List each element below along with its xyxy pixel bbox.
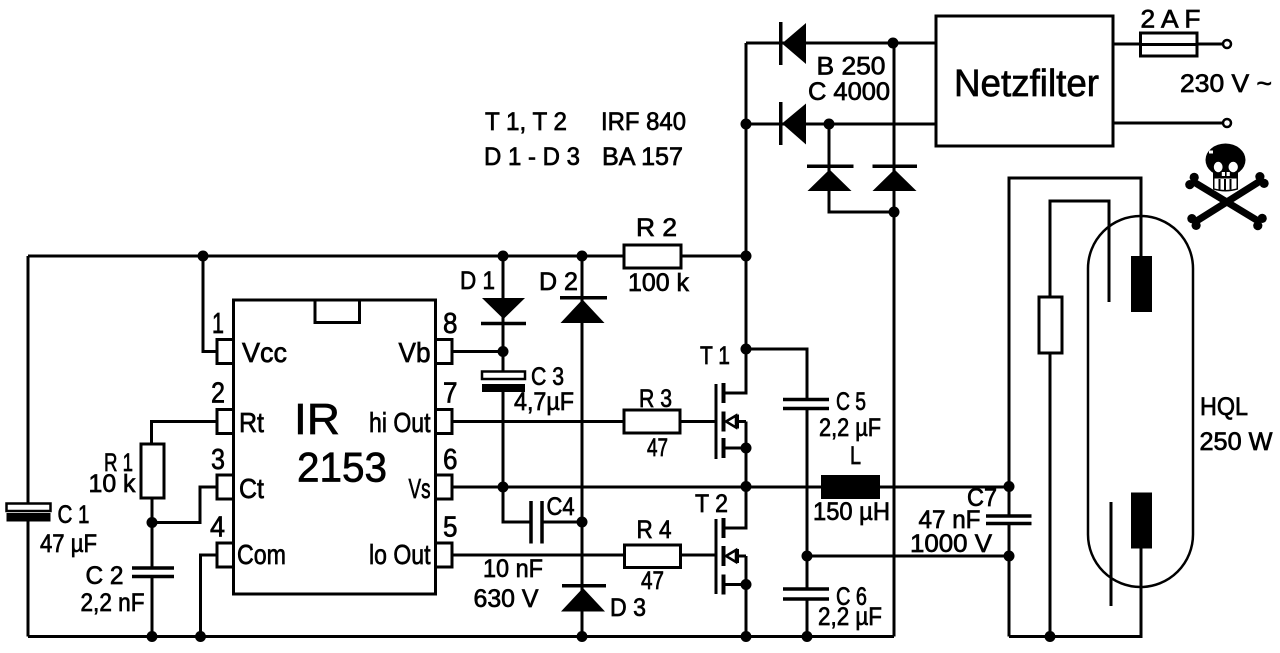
svg-text:2,2 nF: 2,2 nF — [81, 589, 145, 617]
svg-text:Vs: Vs — [409, 473, 431, 504]
svg-text:4,7µF: 4,7µF — [514, 388, 574, 416]
svg-text:IR: IR — [294, 395, 340, 444]
svg-text:2 A F: 2 A F — [1141, 6, 1201, 34]
svg-text:10 nF: 10 nF — [483, 555, 543, 583]
svg-text:C 5: C 5 — [836, 388, 866, 416]
svg-text:C 2: C 2 — [86, 562, 124, 590]
svg-text:Vb: Vb — [399, 337, 431, 368]
svg-text:L: L — [850, 442, 861, 470]
svg-text:Netzfilter: Netzfilter — [954, 63, 1099, 105]
svg-text:2,2 µF: 2,2 µF — [818, 603, 882, 631]
svg-text:1: 1 — [212, 308, 224, 340]
svg-text:T 1, T 2: T 1, T 2 — [485, 108, 567, 136]
svg-text:B 250: B 250 — [817, 53, 886, 81]
svg-text:Com: Com — [237, 539, 286, 570]
svg-text:C 3: C 3 — [531, 363, 564, 391]
svg-text:230 V ~: 230 V ~ — [1180, 70, 1272, 98]
svg-text:100 k: 100 k — [628, 269, 689, 297]
svg-text:Vcc: Vcc — [242, 337, 287, 368]
svg-text:150 µH: 150 µH — [813, 498, 890, 526]
svg-text:D 2: D 2 — [539, 268, 578, 296]
svg-text:47 µF: 47 µF — [40, 530, 97, 558]
svg-text:C 1: C 1 — [58, 501, 90, 529]
svg-text:D 1: D 1 — [460, 267, 495, 295]
svg-text:Rt: Rt — [239, 407, 264, 438]
svg-text:D 1 - D 3: D 1 - D 3 — [484, 143, 580, 171]
svg-text:Ct: Ct — [239, 473, 264, 504]
svg-text:T 2: T 2 — [695, 490, 728, 518]
svg-text:4: 4 — [210, 512, 225, 544]
svg-text:5: 5 — [443, 512, 458, 544]
svg-text:C 4000: C 4000 — [808, 78, 890, 106]
svg-text:2153: 2153 — [297, 444, 387, 491]
svg-text:lo Out: lo Out — [369, 539, 431, 570]
svg-text:10 k: 10 k — [89, 470, 136, 498]
svg-text:2: 2 — [211, 378, 225, 410]
svg-text:R 4: R 4 — [637, 516, 672, 544]
svg-text:2,2 µF: 2,2 µF — [819, 414, 881, 442]
svg-text:630 V: 630 V — [474, 585, 539, 613]
svg-text:6: 6 — [443, 444, 458, 476]
svg-text:T 1: T 1 — [700, 342, 730, 370]
svg-text:D 3: D 3 — [610, 594, 646, 622]
svg-text:C4: C4 — [547, 493, 575, 521]
svg-text:hi Out: hi Out — [369, 407, 431, 438]
svg-text:1000 V: 1000 V — [910, 530, 992, 558]
svg-text:IRF 840: IRF 840 — [601, 108, 686, 136]
svg-text:47: 47 — [647, 434, 668, 462]
svg-text:8: 8 — [443, 308, 458, 340]
svg-text:7: 7 — [443, 378, 458, 410]
svg-text:R 3: R 3 — [639, 385, 672, 413]
svg-text:BA 157: BA 157 — [602, 143, 683, 171]
svg-text:R 2: R 2 — [636, 214, 677, 242]
svg-text:HQL: HQL — [1200, 393, 1248, 421]
svg-text:250 W: 250 W — [1200, 428, 1273, 456]
svg-text:3: 3 — [211, 444, 225, 476]
svg-text:47: 47 — [641, 567, 664, 595]
